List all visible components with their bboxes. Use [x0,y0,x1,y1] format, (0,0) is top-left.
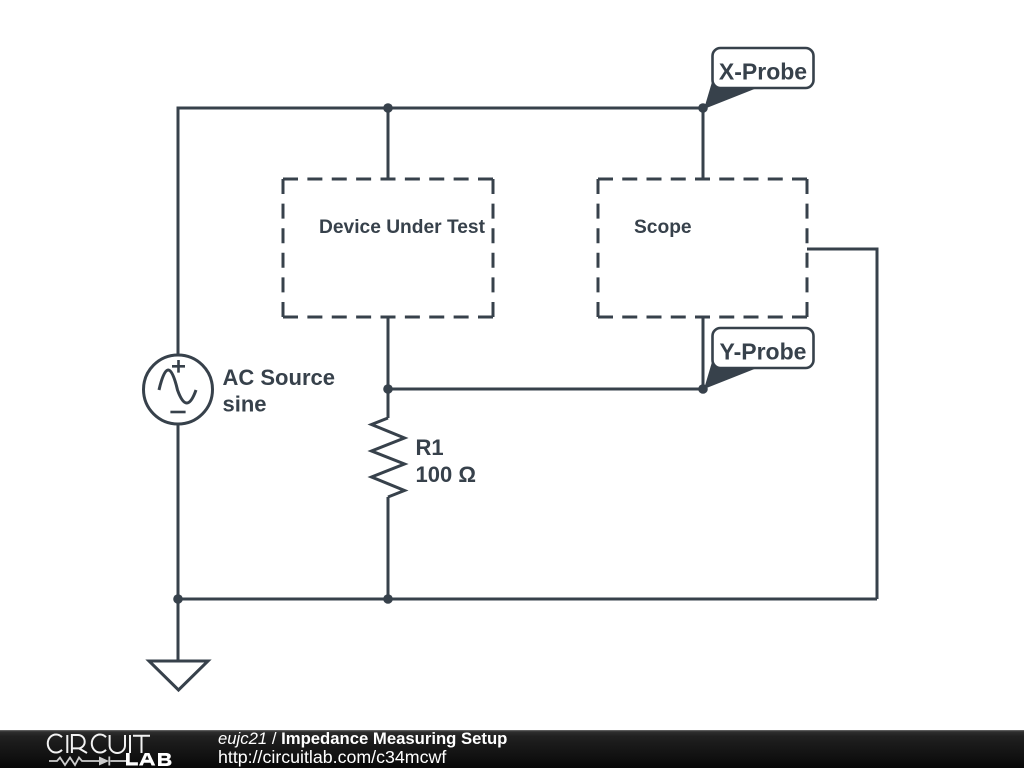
svg-text:Y-Probe: Y-Probe [720,338,807,364]
svg-text:Scope: Scope [634,217,692,238]
svg-text:X-Probe: X-Probe [719,58,807,84]
svg-text:Device Under Test: Device Under Test [319,217,486,238]
svg-text:sine: sine [223,391,267,416]
svg-text:AC Source: AC Source [223,365,335,390]
svg-text:100 Ω: 100 Ω [416,462,476,487]
svg-text:R1: R1 [416,435,444,460]
